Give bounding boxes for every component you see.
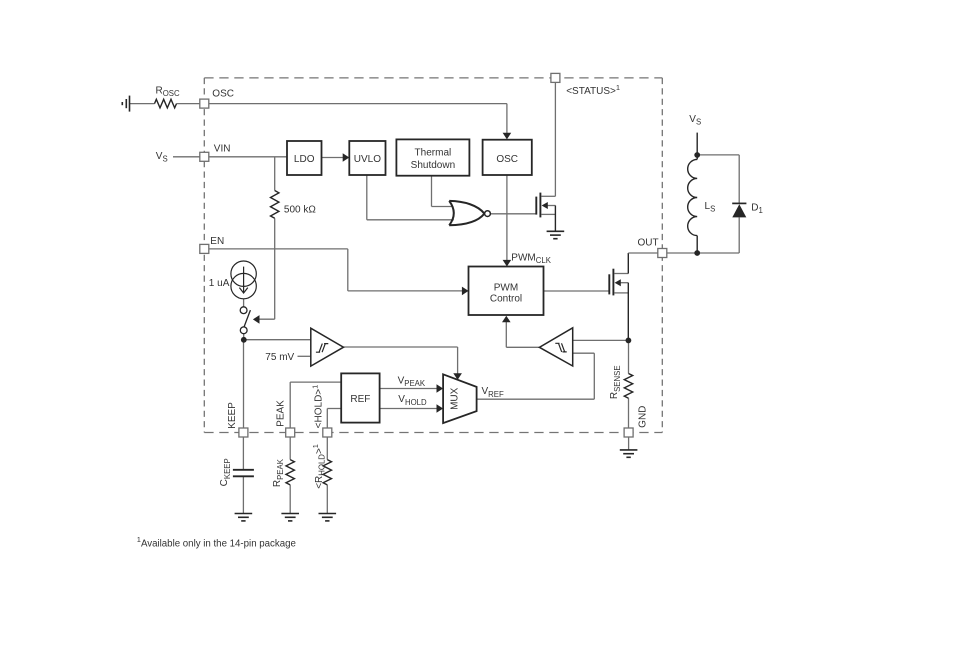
svg-text:<STATUS>1: <STATUS>1 [566, 83, 620, 97]
svg-text:<HOLD>1: <HOLD>1 [310, 385, 324, 429]
svg-text:VIN: VIN [214, 143, 231, 154]
svg-text:500 kΩ: 500 kΩ [284, 205, 316, 216]
svg-text:GND: GND [638, 406, 649, 428]
svg-text:OSC: OSC [212, 89, 234, 100]
svg-text:Control: Control [490, 294, 522, 305]
svg-text:OUT: OUT [638, 238, 659, 249]
svg-text:Shutdown: Shutdown [411, 160, 455, 171]
svg-text:KEEP: KEEP [227, 402, 238, 429]
svg-text:LDO: LDO [294, 154, 315, 165]
svg-text:UVLO: UVLO [354, 154, 381, 165]
svg-text:1 uA: 1 uA [209, 278, 230, 289]
svg-text:PWM: PWM [494, 282, 518, 293]
svg-text:EN: EN [210, 236, 224, 247]
svg-text:PEAK: PEAK [275, 400, 286, 427]
svg-text:MUX: MUX [449, 387, 460, 410]
svg-text:75 mV: 75 mV [265, 352, 294, 363]
svg-text:OSC: OSC [496, 154, 518, 165]
svg-text:Thermal: Thermal [415, 148, 452, 159]
svg-text:REF: REF [350, 394, 370, 405]
